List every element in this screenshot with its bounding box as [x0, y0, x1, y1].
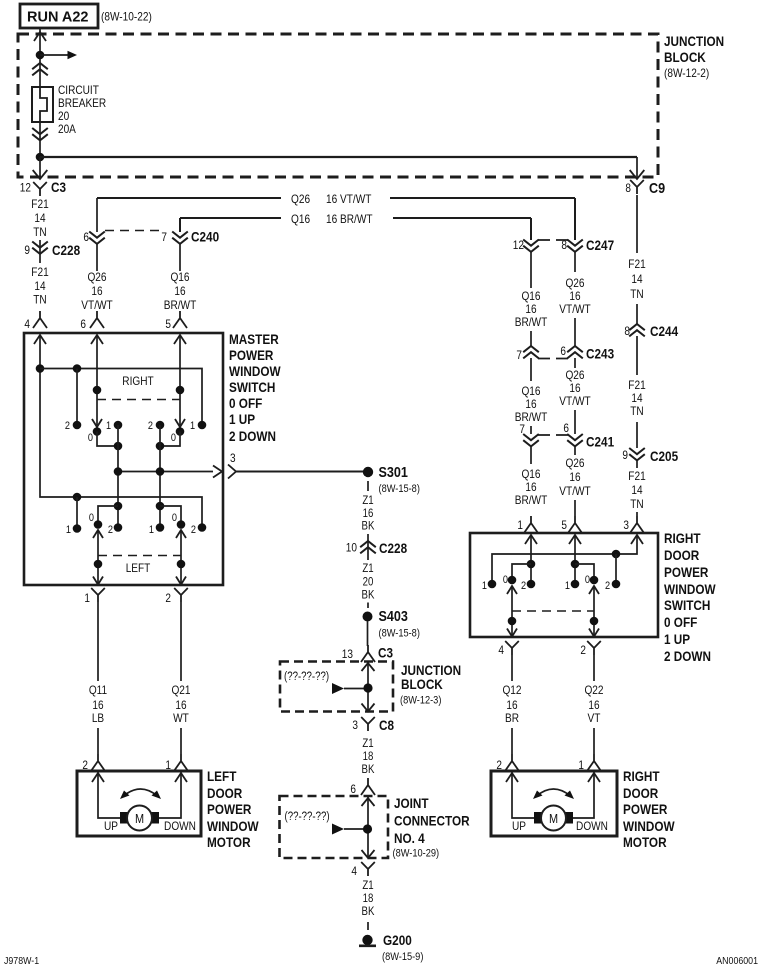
- joint connector no.4 dashed outline: [280, 796, 389, 858]
- svg-text:CIRCUIT: CIRCUIT: [58, 83, 99, 97]
- contact dot rds 1 (left): [488, 580, 497, 589]
- contact dot rds 2 (right): [612, 580, 621, 589]
- svg-text:4: 4: [24, 317, 30, 331]
- svg-text:JOINT: JOINT: [394, 795, 429, 811]
- svg-text:SWITCH: SWITCH: [664, 597, 710, 613]
- wire rds pin5 to 0R: [575, 564, 594, 580]
- svg-text:UP: UP: [512, 819, 526, 833]
- footer code left: [4, 955, 39, 967]
- svg-text:0: 0: [172, 512, 177, 524]
- svg-text:RIGHT: RIGHT: [664, 530, 701, 546]
- label RIGHT switch: [122, 374, 154, 388]
- node dot rds wiper right: [590, 617, 599, 626]
- svg-text:JUNCTION: JUNCTION: [664, 33, 724, 49]
- svg-text:LEFT: LEFT: [126, 561, 151, 575]
- contact dot right-switch 1 (right): [198, 421, 207, 430]
- left door power window motor box: [77, 771, 201, 836]
- svg-text:2: 2: [191, 524, 196, 536]
- wire label F21 14 TN (c244): [628, 378, 646, 418]
- svg-text:TN: TN: [630, 287, 643, 301]
- svg-text:Q26: Q26: [565, 276, 584, 290]
- contact dot right-switch 2 (left): [73, 421, 82, 430]
- node dot rds wiper left: [508, 617, 517, 626]
- contact labels right-switch left group: [65, 420, 111, 444]
- connector C247 pin 8: [561, 198, 582, 272]
- svg-text:C8: C8: [379, 717, 394, 733]
- rds mechanical link dashed: [512, 610, 594, 612]
- left motor wiring: [98, 773, 181, 818]
- svg-text:2: 2: [65, 420, 70, 432]
- svg-text:3: 3: [352, 718, 358, 732]
- svg-text:14: 14: [631, 391, 642, 405]
- left motor pin1 entry arrow: [175, 773, 187, 782]
- svg-text:Q16: Q16: [521, 289, 540, 303]
- svg-text:RIGHT: RIGHT: [122, 374, 154, 388]
- connector C241 pin 6: [563, 410, 582, 455]
- svg-text:NO. 4: NO. 4: [394, 830, 425, 846]
- connector C240 pin 7: [161, 229, 219, 272]
- contact labels right-switch right group: [148, 420, 195, 444]
- wire label Q16 16 BR/WT (pin5 drop): [164, 270, 197, 312]
- svg-text:1: 1: [149, 524, 154, 536]
- svg-text:C228: C228: [379, 540, 407, 556]
- svg-text:POWER: POWER: [623, 801, 667, 817]
- right switch pin 2: [580, 641, 600, 657]
- svg-text:F21: F21: [31, 197, 49, 211]
- label UP left motor: [104, 819, 118, 833]
- master switch pin 6: [80, 311, 104, 331]
- arrow rds exit pin2: [589, 629, 599, 637]
- svg-text:0: 0: [171, 432, 176, 444]
- wire label Q22 16 VT: [584, 683, 603, 725]
- svg-text:TN: TN: [33, 293, 46, 307]
- wire bus118 to left-switch 0L: [98, 506, 118, 525]
- svg-text:M: M: [135, 811, 144, 826]
- svg-text:16: 16: [569, 289, 580, 303]
- right motor pin 2: [496, 754, 519, 772]
- wire bus down to C3: [33, 157, 48, 179]
- node dot wiper right: [177, 560, 186, 569]
- svg-text:DOOR: DOOR: [664, 547, 699, 563]
- wire label Q12 16 BR: [502, 683, 521, 725]
- svg-text:3: 3: [230, 451, 236, 465]
- wire rds wiper left: [511, 586, 513, 636]
- node dot wiper left: [94, 560, 103, 569]
- wire rds feed to 2R: [615, 554, 617, 584]
- svg-text:C228: C228: [52, 242, 80, 258]
- svg-text:WINDOW: WINDOW: [623, 818, 675, 834]
- motor M left: [127, 806, 152, 831]
- svg-text:Q12: Q12: [502, 683, 521, 697]
- svg-text:5: 5: [561, 518, 567, 532]
- svg-text:MOTOR: MOTOR: [623, 834, 667, 850]
- svg-text:1: 1: [482, 580, 487, 592]
- master switch pin 1: [84, 588, 104, 605]
- svg-text:16: 16: [506, 698, 517, 712]
- svg-text:2: 2: [580, 643, 586, 657]
- svg-text:6: 6: [560, 344, 566, 358]
- left motor brush left: [120, 812, 128, 824]
- svg-text:9: 9: [622, 448, 628, 462]
- wire Q12 upper segment: [511, 655, 513, 681]
- svg-text:DOWN: DOWN: [164, 819, 196, 833]
- circuit breaker 20 20A: [32, 87, 53, 122]
- wire left-switch wiper right: [180, 530, 182, 584]
- svg-text:Q22: Q22: [584, 683, 603, 697]
- svg-text:C247: C247: [586, 237, 614, 253]
- wire Q22 upper segment: [593, 655, 595, 681]
- arrow tap to right: [40, 51, 77, 59]
- svg-text:SWITCH: SWITCH: [229, 379, 275, 395]
- node dot at feed tap: [36, 51, 45, 60]
- svg-text:1: 1: [517, 518, 523, 532]
- wire Q21 lower segment: [180, 728, 182, 754]
- svg-text:AN006001: AN006001: [716, 955, 758, 967]
- connector C243 pin 7: [516, 331, 614, 381]
- svg-text:1: 1: [106, 420, 111, 432]
- label LEFT switch: [126, 561, 151, 575]
- svg-text:Q26: Q26: [565, 368, 584, 382]
- right switch pin 5: [561, 500, 582, 533]
- svg-text:DOOR: DOOR: [207, 785, 242, 801]
- arrow into joint connector: [362, 798, 375, 806]
- connector C9 pin 8: [625, 180, 665, 197]
- svg-text:Q11: Q11: [89, 683, 108, 697]
- contact dot rds 0 (right): [590, 576, 599, 585]
- wire rds pin1 to 0L: [512, 564, 531, 580]
- master power window switch box: [24, 333, 223, 585]
- svg-text:14: 14: [34, 279, 45, 293]
- svg-text:7: 7: [519, 422, 525, 436]
- wire from RUN A22 down to circuit breaker: [39, 29, 41, 88]
- joint connector pin 4: [351, 862, 374, 878]
- wire rds pin5 vertical: [574, 535, 576, 584]
- svg-text:Q16: Q16: [521, 384, 540, 398]
- svg-text:C3: C3: [378, 645, 393, 661]
- svg-text:VT/WT: VT/WT: [559, 484, 591, 498]
- svg-text:8: 8: [624, 324, 630, 338]
- wire Q11 upper segment: [97, 602, 99, 681]
- pin 6 entry arrow: [91, 335, 103, 344]
- label (8W-10-22): [101, 10, 152, 24]
- contact dot left-switch 1 (right): [156, 523, 165, 532]
- connector C241 pin 7: [519, 422, 614, 464]
- node dot output/bus160: [156, 467, 165, 476]
- right motor brush left: [534, 812, 542, 824]
- svg-text:C9: C9: [649, 180, 665, 197]
- svg-text:16: 16: [174, 284, 185, 298]
- svg-text:(8W-10-29): (8W-10-29): [393, 848, 440, 860]
- svg-text:F21: F21: [628, 469, 646, 483]
- wire label Q21 16 WT: [171, 683, 190, 725]
- wire through junction block 2: [367, 662, 369, 712]
- svg-text:(8W-15-8): (8W-15-8): [379, 628, 420, 640]
- svg-text:Q21: Q21: [171, 683, 190, 697]
- node dot bus118 upper: [114, 442, 123, 451]
- svg-text:(??-??-??): (??-??-??): [284, 671, 329, 683]
- wire stub above G200: [367, 922, 369, 930]
- wire Q26 16 VT/WT horizontal: [97, 198, 575, 234]
- svg-text:TN: TN: [33, 225, 46, 239]
- right motor pin2 entry arrow: [506, 773, 518, 782]
- right door power window motor box: [491, 771, 617, 836]
- svg-text:16 VT/WT: 16 VT/WT: [326, 192, 372, 206]
- contact dot rds 1 (right): [571, 580, 580, 589]
- arrow rds wiper right: [589, 586, 599, 594]
- node dot bus160 upper: [156, 442, 165, 451]
- svg-text:C243: C243: [586, 346, 614, 362]
- contact labels left-switch left group: [66, 512, 113, 536]
- svg-text:0: 0: [89, 512, 94, 524]
- connector C247 pin 12: [513, 218, 614, 288]
- svg-text:18: 18: [363, 751, 374, 763]
- svg-text:BLOCK: BLOCK: [664, 49, 706, 65]
- footer code right: [716, 955, 758, 967]
- svg-text:CONNECTOR: CONNECTOR: [394, 813, 470, 829]
- node dot pin6 wiper pivot: [93, 386, 102, 395]
- connector chevrons down below breaker: [32, 128, 48, 140]
- arrow exit pin 1: [93, 577, 103, 585]
- svg-text:0 OFF: 0 OFF: [229, 395, 263, 411]
- svg-text:2: 2: [148, 420, 153, 432]
- svg-text:VT/WT: VT/WT: [81, 298, 113, 312]
- svg-text:7: 7: [516, 348, 522, 362]
- wire label Q16 16 BR/WT (c243): [515, 384, 548, 424]
- svg-text:POWER: POWER: [207, 801, 251, 817]
- svg-text:Q16: Q16: [170, 270, 189, 284]
- node dot breaker output: [36, 153, 45, 162]
- junction block 2 tap arrow: [332, 683, 364, 694]
- arrow into junction block 2: [362, 663, 375, 671]
- right door power window motor label: [623, 768, 675, 850]
- power feed box RUN A22: [20, 4, 98, 28]
- wire label Q11 16 LB: [89, 683, 108, 725]
- arrow wiper right-switch left: [92, 419, 102, 427]
- connector C247 link: [538, 239, 568, 241]
- svg-text:BK: BK: [362, 521, 375, 533]
- svg-text:Z1: Z1: [362, 495, 373, 507]
- wire label Q26 16 VT/WT inline: [291, 192, 372, 206]
- svg-text:6: 6: [80, 317, 86, 331]
- svg-text:TN: TN: [630, 404, 643, 418]
- wire label Q26 16 VT/WT (c243): [559, 368, 591, 408]
- svg-text:2: 2: [165, 591, 171, 605]
- svg-text:M: M: [549, 811, 558, 826]
- left motor brush right: [151, 812, 159, 824]
- svg-text:BK: BK: [362, 764, 375, 776]
- arrow wiper left-switch right: [176, 530, 186, 538]
- svg-text:Q26: Q26: [87, 270, 106, 284]
- svg-text:F21: F21: [31, 265, 49, 279]
- connector C240 pin 6: [83, 230, 104, 271]
- contact dot left-switch 2 (right): [198, 523, 207, 532]
- connector C228 pin 10: [346, 534, 407, 560]
- joint connector pin 6: [350, 778, 375, 796]
- svg-text:BR: BR: [505, 711, 519, 725]
- contact dot left-switch 0 (left): [94, 520, 103, 529]
- svg-text:2: 2: [521, 580, 526, 592]
- contact labels rds right group: [565, 574, 610, 592]
- svg-text:BR/WT: BR/WT: [515, 493, 548, 507]
- wire stub above S403: [367, 603, 369, 609]
- node dot pin5 wiper pivot: [176, 386, 185, 395]
- svg-text:Z1: Z1: [362, 880, 373, 892]
- svg-text:WINDOW: WINDOW: [664, 581, 716, 597]
- left motor pin 2: [82, 754, 105, 772]
- wire pin4 feed vertical and lower feed rail: [40, 335, 202, 527]
- wire label Q26 16 VT/WT (c241): [559, 456, 591, 498]
- svg-text:6: 6: [350, 782, 356, 796]
- wire through joint connector: [367, 796, 369, 858]
- wire label F21 14 TN (c9): [628, 257, 646, 301]
- wire label Z1 18 BK (upper): [362, 738, 375, 776]
- lower feed rail tap dot: [73, 493, 82, 502]
- label UP right motor: [512, 819, 526, 833]
- svg-text:BREAKER: BREAKER: [58, 96, 106, 110]
- wire label Z1 18 BK (lower): [362, 880, 375, 918]
- wire rds pin1 vertical: [530, 535, 532, 584]
- contact dot right-switch 2 (right): [156, 421, 165, 430]
- svg-text:16: 16: [91, 284, 102, 298]
- splice S403: [363, 608, 420, 640]
- label unknown ref jc4: [285, 811, 330, 823]
- splice S301: [363, 464, 420, 495]
- junction block (8W-12-3) dashed outline: [280, 662, 393, 712]
- right door power window switch box: [470, 533, 658, 637]
- svg-text:1 UP: 1 UP: [664, 631, 690, 647]
- svg-text:2 DOWN: 2 DOWN: [664, 648, 711, 664]
- connector C228 pin 9: [24, 240, 80, 263]
- svg-text:(8W-10-22): (8W-10-22): [101, 10, 152, 24]
- node dot rds pin1 tap: [527, 560, 536, 569]
- svg-text:J978W-1: J978W-1: [4, 955, 39, 967]
- contact dot right-switch 0 (left): [93, 427, 102, 436]
- svg-text:F21: F21: [628, 257, 646, 271]
- junction block (8W-12-3) label: [400, 662, 461, 707]
- wire rds wiper right: [593, 586, 595, 636]
- svg-text:20A: 20A: [58, 122, 76, 136]
- svg-text:MOTOR: MOTOR: [207, 834, 251, 850]
- svg-text:14: 14: [631, 272, 642, 286]
- svg-text:BR/WT: BR/WT: [164, 298, 197, 312]
- connector C244 pin 8: [624, 304, 678, 375]
- right switch pin 1: [517, 516, 538, 533]
- connector C243 link: [538, 358, 568, 360]
- node dot upper rail tap: [73, 364, 82, 373]
- connector chevrons up on feed wire: [32, 63, 48, 75]
- bus wire across junction block: [40, 156, 637, 158]
- connector C241 link: [538, 434, 568, 436]
- svg-text:0: 0: [503, 574, 508, 586]
- connector C8 pin 3: [352, 717, 394, 733]
- svg-text:16: 16: [175, 698, 186, 712]
- svg-text:4: 4: [351, 864, 357, 878]
- svg-text:20: 20: [58, 109, 69, 123]
- svg-text:BR/WT: BR/WT: [515, 315, 548, 329]
- svg-text:C3: C3: [51, 179, 66, 195]
- svg-text:BK: BK: [362, 590, 375, 602]
- label DOWN right motor: [576, 819, 608, 833]
- right switch pin 4: [498, 641, 518, 657]
- right-switch mechanical link dashed: [97, 399, 180, 401]
- master power window switch label: [229, 331, 281, 444]
- svg-text:Z1: Z1: [362, 738, 373, 750]
- contact dot rds 0 (left): [508, 576, 517, 585]
- wire label Q16 16 BR/WT (c247): [515, 289, 548, 329]
- svg-text:F21: F21: [628, 378, 646, 392]
- node dot bus118 lower: [114, 502, 123, 511]
- right motor wiring: [512, 773, 594, 818]
- svg-text:16: 16: [363, 508, 374, 520]
- left motor pin 1: [165, 754, 188, 772]
- svg-text:WINDOW: WINDOW: [229, 363, 281, 379]
- wire lower rail to contact 1: [76, 497, 78, 529]
- wire bus160 to left-switch 0R: [160, 506, 181, 525]
- rds feed wire pin3: [492, 535, 637, 584]
- node dot output/bus118: [114, 467, 123, 476]
- wire Q11 lower segment: [97, 728, 99, 754]
- svg-text:14: 14: [631, 483, 642, 497]
- contact dot left-switch 1 (left): [73, 524, 82, 533]
- wire Q12 lower segment: [511, 728, 513, 754]
- arrow out of junction block 2: [362, 704, 375, 712]
- svg-text:TN: TN: [630, 497, 643, 511]
- junction block (8W-12-2) label: [664, 33, 724, 80]
- svg-text:16: 16: [525, 480, 536, 494]
- master switch pin 5: [165, 311, 187, 331]
- contact dot left-switch 0 (right): [177, 520, 186, 529]
- node dot rds pin5 tap: [571, 560, 580, 569]
- node dot joint connector: [363, 824, 372, 833]
- wire label Q26 16 VT/WT (c247): [559, 276, 591, 316]
- svg-text:13: 13: [342, 647, 353, 661]
- svg-text:VT/WT: VT/WT: [559, 394, 591, 408]
- wire bus 160 vertical: [159, 425, 161, 528]
- svg-text:20: 20: [363, 577, 374, 589]
- wire left-switch wiper left: [97, 530, 99, 584]
- svg-text:Z1: Z1: [362, 563, 373, 575]
- contact dot left-switch 2 (left): [114, 523, 123, 532]
- motor M right: [541, 806, 566, 831]
- svg-text:6: 6: [563, 421, 569, 435]
- svg-text:1 UP: 1 UP: [229, 411, 255, 427]
- wire down from Q26 line to C240 pin 6: [96, 198, 98, 232]
- contact dot right-switch 1 (left): [114, 421, 123, 430]
- svg-text:BLOCK: BLOCK: [401, 676, 443, 692]
- svg-text:12: 12: [513, 238, 524, 252]
- svg-text:LB: LB: [92, 711, 104, 725]
- svg-text:16: 16: [525, 302, 536, 316]
- connector C3 pin 13: [342, 645, 393, 663]
- arrow wiper right-switch right: [175, 419, 185, 427]
- circuit breaker label: [58, 83, 106, 136]
- wire label F21 14 TN (c205): [628, 469, 646, 511]
- contact dot rds 2 (left): [527, 580, 536, 589]
- svg-text:Q26: Q26: [291, 192, 310, 206]
- ground G200: [359, 932, 423, 963]
- svg-text:C244: C244: [650, 323, 678, 339]
- node dot junction block 2: [363, 683, 372, 692]
- wire upper rail to contact 2: [76, 369, 78, 426]
- svg-text:Q16: Q16: [291, 212, 310, 226]
- svg-text:10: 10: [346, 541, 357, 555]
- svg-text:C241: C241: [586, 434, 614, 450]
- upper feed rail (right switch): [40, 369, 202, 426]
- wire label Z1 20 BK: [362, 563, 375, 602]
- master switch pin 4: [24, 311, 47, 331]
- wire stub below S301: [367, 481, 369, 491]
- svg-text:14: 14: [34, 211, 45, 225]
